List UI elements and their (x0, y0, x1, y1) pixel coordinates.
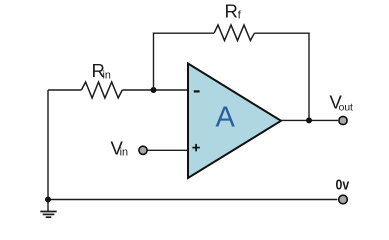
svg-text:in: in (103, 69, 111, 81)
wire: Rin right lead to inverting input (122, 89, 188, 91)
op-amp A (188, 64, 281, 179)
wire: Vin lead to non-inverting input (146, 149, 188, 151)
op-amp minus input symbol (194, 90, 200, 92)
node: junction at inverting input / feedback tap (151, 87, 157, 93)
wire: feedback left vertical (153, 33, 155, 91)
svg-text:0v: 0v (336, 177, 350, 193)
wire: output lead (281, 119, 338, 121)
wire: 0v rail (48, 199, 337, 201)
op-amp plus input symbol (192, 147, 199, 149)
svg-text:in: in (120, 146, 128, 158)
terminal 0v (339, 195, 348, 204)
resistor Rin (81, 82, 122, 98)
svg-text:out: out (339, 102, 353, 113)
wire: left vertical from Rin input down to ground node (47, 90, 49, 200)
svg-text:f: f (238, 9, 242, 21)
svg-text:R: R (225, 0, 238, 21)
terminal Vin (139, 146, 147, 154)
wire: feedback right vertical down to output node (308, 33, 310, 121)
wire: Rin left lead (48, 89, 81, 91)
wire: feedback top left lead (153, 32, 214, 34)
ground (47, 200, 49, 212)
terminal Vout (339, 116, 347, 124)
svg-text:A: A (216, 102, 236, 134)
resistor Rf (214, 25, 254, 41)
node: output junction (306, 117, 312, 123)
wire: feedback top right lead (254, 32, 309, 34)
node: ground junction (45, 197, 51, 203)
